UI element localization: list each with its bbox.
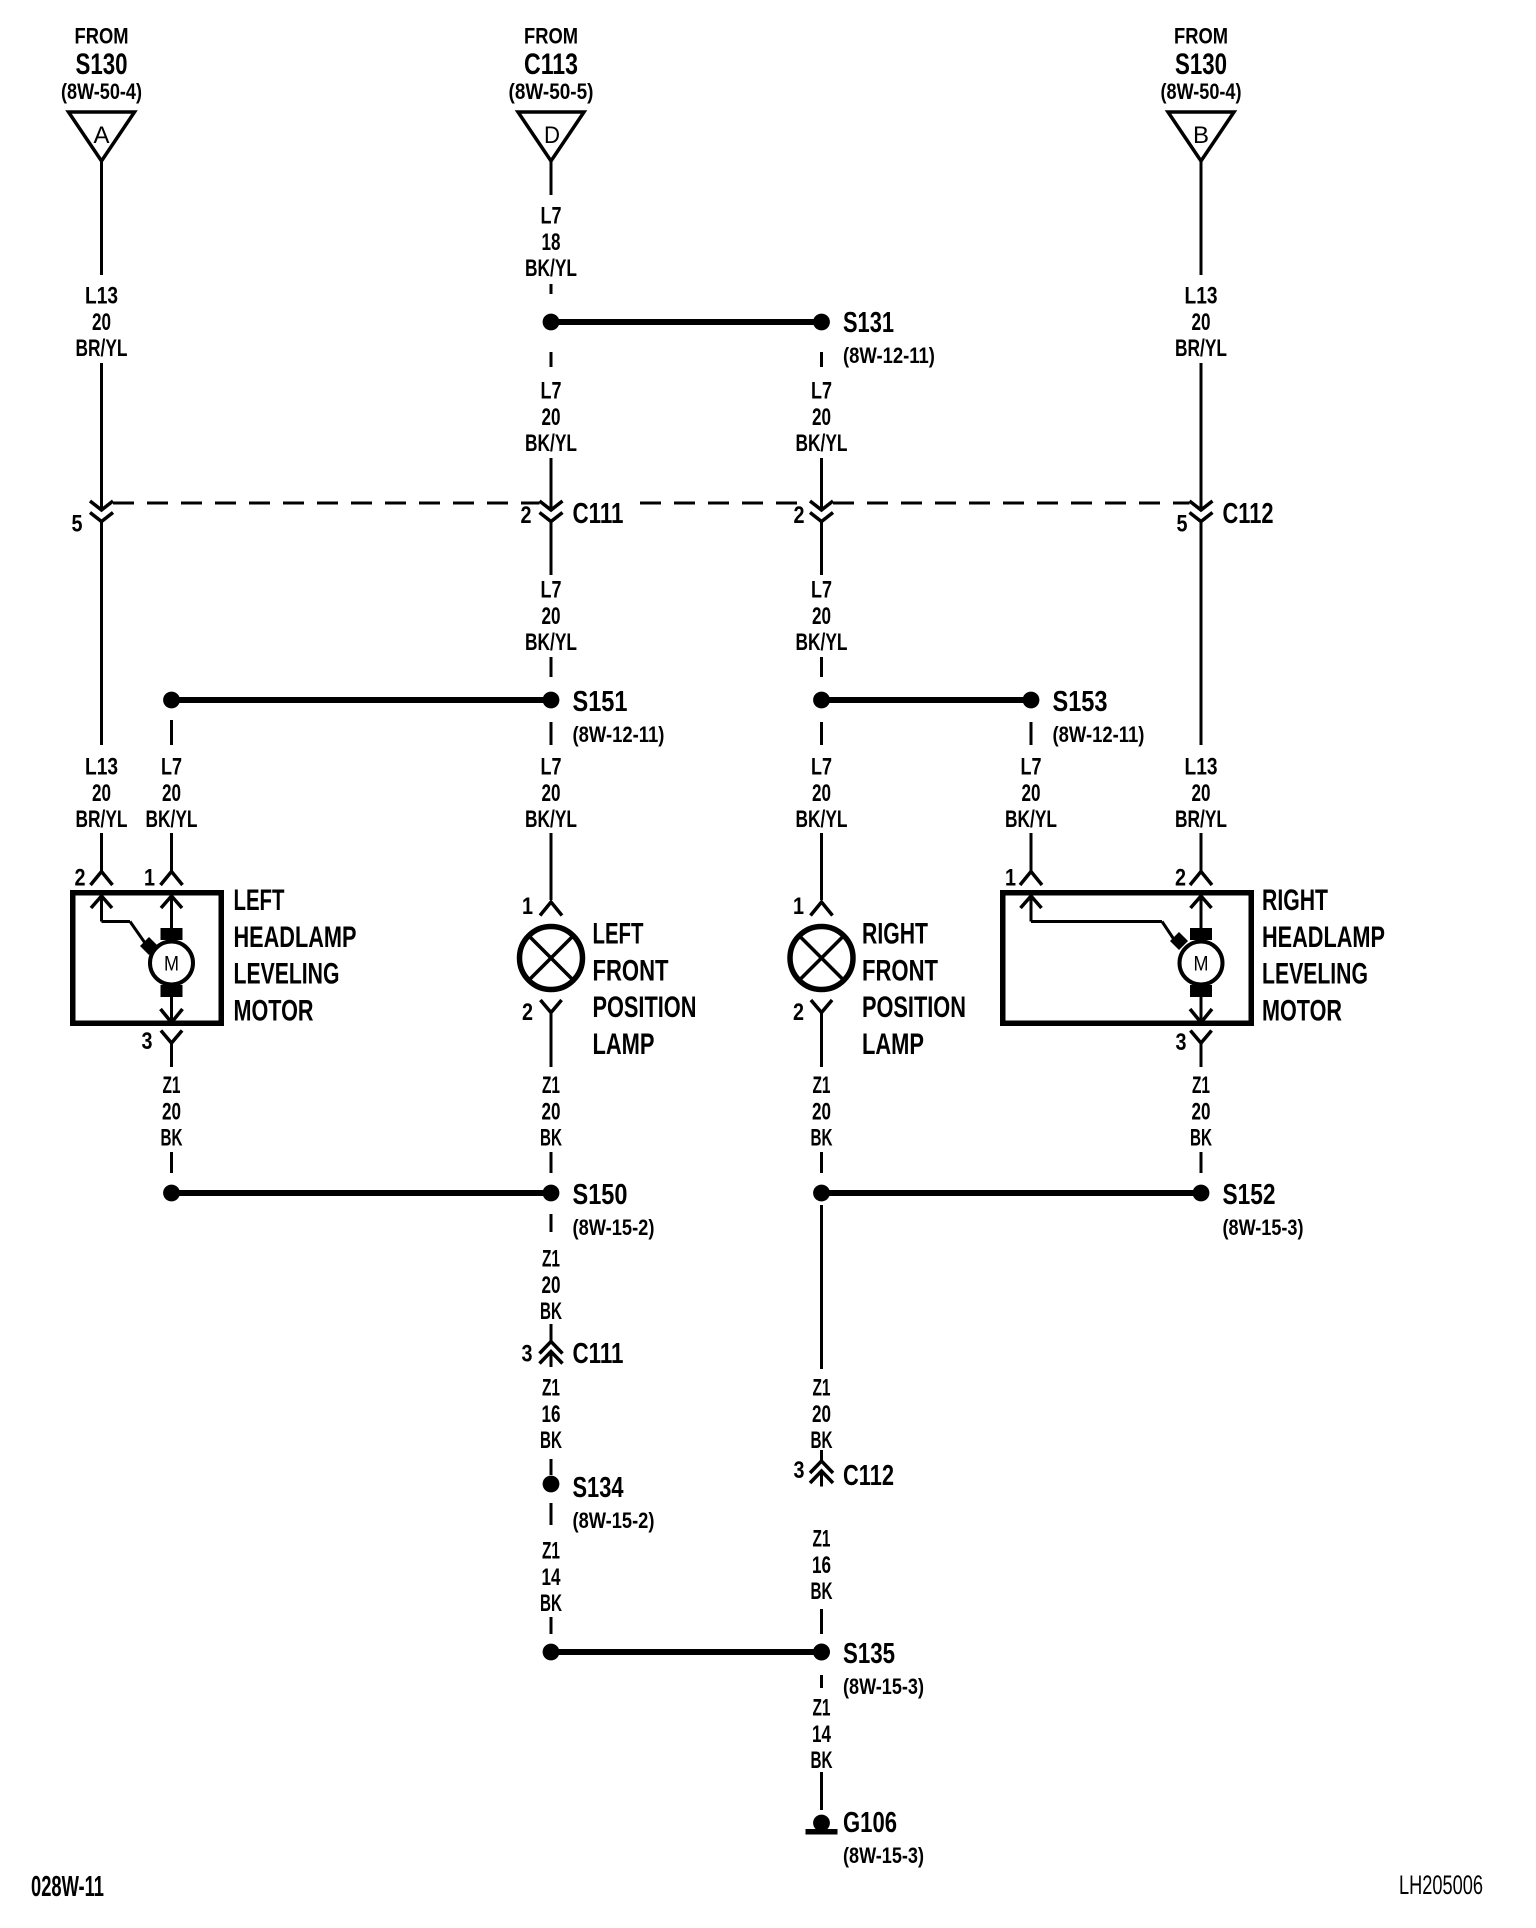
svg-text:C113: C113 <box>524 47 578 81</box>
svg-text:S152: S152 <box>1223 1177 1276 1210</box>
svg-text:S153: S153 <box>1053 685 1108 718</box>
svg-text:L7: L7 <box>811 754 832 780</box>
svg-text:LH205006: LH205006 <box>1399 1869 1483 1899</box>
svg-text:BK: BK <box>160 1125 182 1151</box>
svg-text:BK: BK <box>810 1748 832 1774</box>
svg-text:3: 3 <box>1175 1028 1186 1055</box>
svg-text:1: 1 <box>522 892 533 919</box>
svg-text:S130: S130 <box>76 47 128 81</box>
svg-text:B: B <box>1193 122 1209 149</box>
svg-text:Z1: Z1 <box>813 1695 831 1721</box>
svg-text:FRONT: FRONT <box>593 953 669 987</box>
svg-text:20: 20 <box>162 780 181 806</box>
svg-text:(8W-15-3): (8W-15-3) <box>843 1844 924 1868</box>
svg-text:20: 20 <box>92 309 111 335</box>
svg-text:BR/YL: BR/YL <box>76 335 128 361</box>
svg-text:FRONT: FRONT <box>862 953 938 987</box>
svg-text:20: 20 <box>1191 780 1210 806</box>
svg-text:LEFT: LEFT <box>234 884 285 917</box>
svg-text:20: 20 <box>92 780 111 806</box>
svg-text:20: 20 <box>1021 780 1040 806</box>
svg-text:C111: C111 <box>573 498 624 529</box>
svg-text:L7: L7 <box>540 203 561 229</box>
svg-text:3: 3 <box>793 1456 804 1483</box>
svg-text:BK/YL: BK/YL <box>525 255 577 281</box>
svg-text:(8W-12-11): (8W-12-11) <box>1053 724 1145 748</box>
svg-text:Z1: Z1 <box>542 1246 560 1272</box>
svg-text:L13: L13 <box>1184 281 1217 309</box>
svg-text:BK: BK <box>1190 1125 1212 1151</box>
svg-text:Z1: Z1 <box>813 1073 831 1099</box>
svg-text:BK/YL: BK/YL <box>796 629 848 655</box>
svg-text:1: 1 <box>1005 864 1016 891</box>
svg-text:BR/YL: BR/YL <box>76 806 128 832</box>
svg-text:BK: BK <box>810 1125 832 1151</box>
svg-text:20: 20 <box>162 1099 181 1125</box>
svg-text:20: 20 <box>812 404 831 430</box>
svg-text:2: 2 <box>522 998 533 1025</box>
svg-text:L7: L7 <box>1020 754 1041 780</box>
svg-text:POSITION: POSITION <box>862 990 966 1024</box>
svg-text:S150: S150 <box>573 1178 628 1211</box>
svg-text:LEVELING: LEVELING <box>234 956 340 991</box>
svg-text:BR/YL: BR/YL <box>1175 806 1227 832</box>
svg-text:20: 20 <box>541 780 560 806</box>
svg-text:L7: L7 <box>540 754 561 780</box>
svg-text:L7: L7 <box>811 577 832 603</box>
svg-text:3: 3 <box>141 1027 152 1054</box>
svg-text:RIGHT: RIGHT <box>1262 882 1328 917</box>
svg-text:3: 3 <box>521 1340 532 1367</box>
svg-text:(8W-15-3): (8W-15-3) <box>843 1675 924 1699</box>
svg-text:1: 1 <box>144 864 155 891</box>
svg-text:C111: C111 <box>573 1338 624 1369</box>
svg-text:20: 20 <box>812 1099 831 1125</box>
svg-text:LAMP: LAMP <box>862 1026 924 1060</box>
svg-text:MOTOR: MOTOR <box>1262 993 1342 1027</box>
svg-text:L7: L7 <box>161 754 182 780</box>
svg-text:BK: BK <box>540 1299 562 1325</box>
svg-text:MOTOR: MOTOR <box>234 993 314 1027</box>
svg-text:D: D <box>544 121 560 148</box>
svg-text:POSITION: POSITION <box>593 990 697 1024</box>
svg-text:BK/YL: BK/YL <box>525 806 577 832</box>
svg-text:2: 2 <box>74 864 85 891</box>
svg-text:20: 20 <box>541 1272 560 1298</box>
svg-text:Z1: Z1 <box>542 1538 560 1564</box>
svg-text:(8W-50-5): (8W-50-5) <box>509 80 594 105</box>
svg-text:S130: S130 <box>1175 47 1227 81</box>
svg-text:G106: G106 <box>843 1807 897 1839</box>
svg-text:BK/YL: BK/YL <box>1005 806 1057 832</box>
svg-text:S134: S134 <box>573 1472 625 1504</box>
svg-text:FROM: FROM <box>524 25 578 49</box>
svg-text:(8W-12-11): (8W-12-11) <box>843 345 935 369</box>
svg-text:(8W-15-3): (8W-15-3) <box>1223 1216 1304 1240</box>
svg-text:Z1: Z1 <box>163 1073 181 1099</box>
svg-text:16: 16 <box>812 1552 831 1578</box>
svg-text:(8W-15-2): (8W-15-2) <box>573 1217 655 1241</box>
svg-text:BK: BK <box>540 1125 562 1151</box>
svg-text:20: 20 <box>1191 1099 1210 1125</box>
svg-text:L7: L7 <box>540 577 561 603</box>
svg-text:C112: C112 <box>1223 498 1274 530</box>
svg-text:1: 1 <box>793 892 804 919</box>
svg-text:M: M <box>164 952 179 976</box>
svg-text:Z1: Z1 <box>813 1375 831 1401</box>
svg-text:14: 14 <box>812 1721 831 1747</box>
svg-text:HEADLAMP: HEADLAMP <box>1262 919 1385 953</box>
svg-text:BK: BK <box>810 1579 832 1605</box>
svg-text:HEADLAMP: HEADLAMP <box>234 919 357 953</box>
svg-text:2: 2 <box>1175 864 1186 891</box>
svg-text:L13: L13 <box>85 752 118 780</box>
svg-text:5: 5 <box>1176 510 1187 537</box>
svg-text:L7: L7 <box>540 378 561 404</box>
svg-text:20: 20 <box>541 603 560 629</box>
svg-text:BK/YL: BK/YL <box>525 629 577 655</box>
svg-text:16: 16 <box>541 1401 560 1427</box>
svg-text:Z1: Z1 <box>542 1375 560 1401</box>
svg-text:20: 20 <box>812 1401 831 1427</box>
svg-text:(8W-50-4): (8W-50-4) <box>61 80 142 104</box>
svg-text:2: 2 <box>793 501 804 528</box>
svg-text:20: 20 <box>541 1099 560 1125</box>
svg-text:(8W-50-4): (8W-50-4) <box>1161 80 1242 104</box>
svg-text:18: 18 <box>541 229 560 255</box>
svg-text:(8W-15-2): (8W-15-2) <box>573 1510 655 1534</box>
svg-text:S135: S135 <box>843 1638 895 1669</box>
svg-text:2: 2 <box>520 501 531 528</box>
svg-text:BK: BK <box>540 1428 562 1454</box>
svg-text:20: 20 <box>1191 309 1210 335</box>
svg-text:Z1: Z1 <box>1192 1073 1210 1099</box>
svg-text:L13: L13 <box>1184 752 1217 780</box>
svg-text:5: 5 <box>71 510 82 537</box>
svg-text:20: 20 <box>812 780 831 806</box>
svg-text:BK/YL: BK/YL <box>796 806 848 832</box>
svg-text:BK: BK <box>540 1591 562 1617</box>
svg-text:A: A <box>94 122 110 149</box>
svg-text:20: 20 <box>812 603 831 629</box>
svg-text:Z1: Z1 <box>542 1073 560 1099</box>
svg-text:BK/YL: BK/YL <box>146 806 198 832</box>
svg-text:LAMP: LAMP <box>593 1026 655 1060</box>
svg-text:LEFT: LEFT <box>593 918 644 951</box>
svg-text:FROM: FROM <box>1174 25 1228 49</box>
svg-text:L13: L13 <box>85 281 118 309</box>
svg-text:L7: L7 <box>811 378 832 404</box>
svg-text:RIGHT: RIGHT <box>862 916 928 951</box>
svg-text:20: 20 <box>541 404 560 430</box>
svg-text:M: M <box>1194 952 1209 976</box>
svg-text:BR/YL: BR/YL <box>1175 335 1227 361</box>
svg-text:LEVELING: LEVELING <box>1262 956 1368 991</box>
svg-text:028W-11: 028W-11 <box>31 1871 104 1903</box>
svg-text:2: 2 <box>793 998 804 1025</box>
svg-text:S131: S131 <box>843 307 894 339</box>
svg-text:(8W-12-11): (8W-12-11) <box>573 724 665 748</box>
svg-text:14: 14 <box>541 1564 560 1590</box>
svg-text:Z1: Z1 <box>813 1526 831 1552</box>
svg-text:BK/YL: BK/YL <box>525 430 577 456</box>
svg-text:FROM: FROM <box>75 25 129 49</box>
svg-text:S151: S151 <box>573 685 628 718</box>
svg-text:BK/YL: BK/YL <box>796 430 848 456</box>
svg-text:C112: C112 <box>843 1460 894 1492</box>
